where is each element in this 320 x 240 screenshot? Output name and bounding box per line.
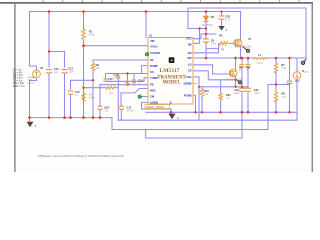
wire CSG [193,76,199,78]
wire VCC [193,34,201,39]
inductor L1 [254,58,267,60]
svg-text:1.5A: 1.5A [304,71,309,74]
wire R2 bottom [92,71,94,118]
wire C21 bottom [247,94,249,113]
svg-text:D2: D2 [211,15,215,19]
wire RAMP [142,66,149,74]
sheet left border [14,3,16,173]
capacitor C12 [68,91,74,95]
svg-text:RAMP: RAMP [150,64,158,68]
wire AGND [142,103,172,113]
svg-text:4.7n: 4.7n [108,81,113,84]
svg-text:100n: 100n [211,43,217,46]
svg-text:VCC: VCC [186,37,192,41]
wire C10 column [48,12,50,68]
wire FB loop [267,85,269,130]
wire HO [193,44,219,53]
mosfet Q2 [229,69,237,77]
wire PGND [193,96,196,113]
current source I1 [293,72,301,80]
svg-text:LO: LO [188,62,192,66]
svg-text:CSG: CSG [186,75,192,79]
wire RES pin [121,89,148,94]
resistor R8 [274,92,277,102]
capacitor C20 [219,16,225,20]
wire R1 column [83,12,85,118]
svg-text:220u: 220u [254,92,260,95]
svg-text:R5: R5 [219,34,223,38]
svg-text:SPBparam: options STEADYSTATE: SPBparam: options STEADYSTATE(s)=4 STEAD… [38,154,124,158]
wire rail1 [111,118,113,130]
wire Q2 drain [235,58,237,69]
wire Q1 drain [240,12,242,39]
svg-text:C10: C10 [54,67,59,71]
wire V1 column bottom [30,78,37,122]
wire C13 column [117,74,119,121]
svg-text:4040: 4040 [295,81,301,83]
svg-text:3300p: 3300p [113,77,120,80]
wire RT [93,60,148,63]
wire C19 bottom [241,94,243,139]
svg-text:2R: 2R [221,48,224,51]
capacitor C10 [46,70,52,74]
wire x127.5 [127,74,129,81]
svg-text:HO: HO [188,51,192,55]
wire R12 column [220,81,222,113]
svg-text:PGND: PGND [184,93,192,97]
wire COMP [144,78,148,82]
pin labels right [184,37,192,98]
svg-text:MODEL: MODEL [163,81,182,86]
capacitor C22 [287,81,293,83]
svg-text:DEMB: DEMB [184,82,192,86]
svg-text:5.6uH: 5.6uH [257,62,264,65]
svg-text:VCCDIS: VCCDIS [150,51,160,55]
svg-text:HB: HB [188,42,192,46]
wire snub C18 col [241,58,243,88]
capacitor C14 [104,79,108,81]
wire FB tap row [268,84,290,86]
svg-text:4.99k: 4.99k [89,97,96,100]
wire HB riser [193,29,200,44]
wire C16 column [99,85,101,118]
wire R7 column [275,58,277,112]
ruler ticks [43,0,299,2]
svg-text:PULSE: PULSE [28,77,36,79]
IC box U1 [145,38,193,109]
resistor R10 [200,89,203,97]
wire C15 stubs [133,74,135,85]
capacitor C21 [245,88,251,92]
wire Q2 source [235,77,237,87]
resistor R5 [219,42,228,45]
node dots SW rail [205,57,208,60]
resistor R13 [126,81,129,85]
wire rail1b [118,112,297,120]
mosfet Q1 [234,39,242,47]
resistor R11 [106,86,115,89]
designators / values [40,14,305,109]
resistor R1 [82,29,85,40]
node dots misc left [48,50,50,52]
svg-text:RES: RES [150,89,156,93]
node dots boot [198,27,200,29]
capacitor C13 [116,76,120,78]
resistor R7 [274,63,277,73]
IC title [157,69,186,86]
svg-text:CSD18532Q5B: CSD18532Q5B [225,79,242,82]
wire I1 column [296,58,298,112]
resistor R12 [219,93,222,100]
svg-text:TRANSIENT: TRANSIENT [157,75,186,80]
svg-text:VIN: VIN [150,39,155,43]
svg-text:100n: 100n [69,71,75,74]
wire DEMB net [198,77,200,120]
svg-text:U1: U1 [149,34,153,38]
node dots top rail [48,10,51,13]
wire SS net [106,73,149,75]
ground G2 [168,114,175,120]
wire V1 column top [30,12,37,71]
wire C12 jog [71,80,94,117]
svg-text:LM5117_TRANS: LM5117_TRANS [146,106,164,109]
net flag VCCDIS green [145,53,148,56]
wire CM stub [141,96,148,98]
pin labels left [150,39,160,105]
param text block [13,68,25,88]
resistor R3 [82,93,85,101]
wire y51.5 [49,52,65,68]
svg-text:AGND: AGND [150,101,158,105]
capacitor C16 [98,106,103,109]
svg-text:V2: V2 [40,66,44,70]
wire top net B [188,7,306,9]
svg-text:COMP: COMP [150,76,158,80]
voltage source V2 [33,70,41,78]
wire VOUT flag drop [305,8,307,60]
probe P2 [236,79,242,84]
svg-text:10n: 10n [104,110,109,113]
svg-text:LM5117: LM5117 [160,69,181,74]
capacitor C15 [132,80,136,82]
capacitor C19 [239,88,245,92]
wire gnd bus center [146,111,297,113]
wire CS [193,71,236,80]
wire VIN rail top [30,11,241,13]
svg-text:1m 1m: 1m 1m [28,82,35,84]
probe P3 VOUT [301,59,306,64]
svg-text:220u: 220u [234,92,240,95]
svg-text:CS: CS [188,69,192,73]
svg-text:6.2k: 6.2k [282,67,287,70]
sheet frame [0,0,313,172]
wire UVLO [84,45,149,47]
net flag CM green [138,95,141,98]
ground G3 [218,26,224,31]
wire rail2 [112,129,268,131]
pin stub DEMB [193,82,197,84]
sheet right border [311,3,313,173]
V2 value lines [28,77,36,84]
svg-text:CSD18532Q5B: CSD18532Q5B [235,45,252,48]
svg-text:4.7n: 4.7n [226,18,231,21]
capacitor C11 [62,70,68,74]
svg-text:SW: SW [187,56,192,60]
capacitor C17 [119,106,124,109]
wire SW rail right [267,57,306,59]
probe P1 [243,47,250,53]
wire C20 column [221,12,223,26]
wire SW rail [193,57,254,59]
wire LO [193,65,231,74]
sheet top border [0,2,313,4]
wire R5 to gate [229,42,236,44]
model label box [145,105,170,109]
wire FB [100,84,148,86]
wire VIN pin [145,12,147,38]
node dots center bus [170,111,173,114]
wire rail3 [146,130,242,139]
svg-text:PER = 1m: PER = 1m [13,84,25,88]
wire comp RC row [106,80,145,82]
svg-text:U7: U7 [248,37,252,41]
svg-text:49.9k: 49.9k [89,34,96,37]
ground zero labels [35,28,228,128]
wire snub C21 col [247,58,249,88]
diode D2 [204,16,209,21]
node dots sense row [234,86,236,88]
wire C14 stub [105,74,107,79]
wire gnd bus left [30,117,113,119]
capacitor C21s snub [246,65,251,67]
svg-text:RT: RT [150,58,154,62]
capacitor C18 snub [240,65,245,67]
wire C22 column [289,58,291,112]
svg-text:ZMC5378: ZMC5378 [202,24,213,27]
wire vertical x188 [187,8,189,29]
svg-text:S: S [170,100,172,104]
wire y28.5 boot [188,28,206,30]
svg-text:C11: C11 [68,66,73,70]
wire y34 [201,33,216,35]
svg-text:4700p: 4700p [127,110,134,113]
wire R10 bottom [201,87,203,113]
logo chip [169,57,175,63]
wire D2 column [205,12,207,59]
wire C10 bottom [48,74,50,118]
wire sense row [199,86,248,88]
ground G1 [27,122,34,127]
svg-text:FB: FB [150,83,154,87]
resistor R2 [91,63,94,71]
node dot FB tap [275,83,277,85]
svg-text:10u: 10u [54,71,59,74]
svg-text:UVLO: UVLO [150,44,157,48]
wire C11 bottom [64,74,66,118]
wire Q1 source [240,46,242,58]
capacitor C8 [203,39,209,43]
svg-text:SS: SS [150,70,154,74]
wire C17 column [120,93,122,120]
svg-text:C12: C12 [75,90,80,94]
svg-text:1.0k: 1.0k [282,96,287,99]
wire R11 row [84,87,119,89]
node dots left bus [28,116,31,119]
